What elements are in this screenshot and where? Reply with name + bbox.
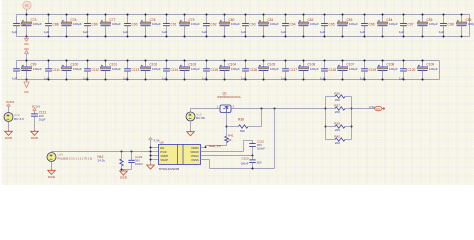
wire row2 right edge — [439, 61, 441, 80]
svg-text:1µF: 1µF — [399, 30, 405, 34]
wire row1 right edge — [469, 15, 471, 37]
svg-text:100µF: 100µF — [270, 67, 279, 71]
svg-text:1µF: 1µF — [123, 30, 129, 34]
svg-text:100µF: 100µF — [349, 67, 358, 71]
capacitor C108 100uF — [382, 61, 384, 67]
power port DC3V3 above row1 — [26, 9, 28, 15]
capacitor C91 1uF — [166, 15, 168, 24]
wire gate_pc — [226, 142, 228, 145]
resistor R36 200 — [326, 96, 336, 98]
capacitor C82 100uF — [303, 15, 305, 23]
ground below U14 — [51, 169, 53, 171]
wire bank left rail — [325, 97, 327, 140]
wire U14 to ground — [51, 162, 53, 169]
svg-text:C110: C110 — [242, 156, 249, 160]
capacitor C94 1uF — [285, 15, 287, 24]
capacitor C110 (row2 left edge) — [16, 61, 18, 69]
svg-text:C93: C93 — [250, 23, 256, 27]
capacitor C100 100uF — [66, 61, 68, 67]
svg-text:100µF: 100µF — [429, 67, 438, 71]
wire row1 bottom bus — [17, 36, 470, 38]
svg-text:50: 50 — [228, 138, 232, 142]
wire row2 top bus — [17, 60, 440, 62]
svg-text:DC3V3: DC3V3 — [32, 106, 41, 109]
resistor R41 50 — [225, 136, 228, 142]
power port over pin bus — [149, 138, 153, 140]
op-amp U8 TPS61402W2B — [159, 145, 201, 165]
svg-text:DC: DC — [25, 5, 29, 8]
svg-text:C117: C117 — [290, 68, 298, 72]
svg-text:C94: C94 — [290, 23, 296, 27]
svg-text:100µF: 100µF — [429, 22, 438, 26]
svg-text:DC3V3: DC3V3 — [6, 101, 15, 104]
capacitor C93 1uF — [245, 15, 247, 24]
svg-text:100µF: 100µF — [73, 22, 82, 26]
capacitor C121 10uF — [31, 113, 38, 115]
svg-text:100µF: 100µF — [270, 22, 279, 26]
capacitor C89 1uF — [87, 15, 89, 24]
wire bank right rail — [351, 97, 353, 140]
capacitor C80 100uF — [224, 15, 226, 23]
svg-text:C112: C112 — [92, 68, 100, 72]
capacitor C105 100uF — [263, 61, 265, 67]
svg-text:100µF: 100µF — [389, 67, 398, 71]
svg-text:DC 06: DC 06 — [196, 116, 205, 120]
svg-text:C115: C115 — [211, 68, 219, 72]
svg-text:100µF: 100µF — [191, 22, 200, 26]
ground below U12 — [8, 130, 10, 132]
svg-text:DC: DC — [24, 47, 29, 51]
svg-text:1µF: 1µF — [44, 30, 50, 34]
capacitor C73 100uF — [26, 15, 28, 23]
svg-text:100µF: 100µF — [389, 22, 398, 26]
svg-text:U8: U8 — [160, 141, 164, 145]
svg-text:C90: C90 — [132, 23, 138, 27]
svg-text:U14: U14 — [57, 153, 63, 157]
svg-text:50k: 50k — [240, 129, 245, 133]
ground below pin bus — [150, 164, 152, 166]
svg-text:C96: C96 — [369, 23, 375, 27]
capacitor C106 100uF — [303, 61, 305, 67]
schematic sheet background — [0, 0, 474, 185]
svg-text:100µF: 100µF — [310, 67, 319, 71]
capacitor C92 1uF — [206, 15, 208, 24]
capacitor C112 100nF — [252, 141, 254, 144]
wire U8 pin2 to C112 — [201, 151, 244, 153]
svg-text:PULSE(0 3.3 1 1 1 1 1 70 1.3): PULSE(0 3.3 1 1 1 1 1 70 1.3) — [57, 157, 92, 161]
svg-text:200: 200 — [335, 128, 340, 132]
svg-text:100nF: 100nF — [257, 146, 265, 150]
wire RC ground rail — [122, 169, 132, 171]
svg-text:1µF: 1µF — [241, 30, 247, 34]
capacitor C120 1uF — [403, 61, 405, 69]
voltage source U12 DC 3.3 — [4, 113, 13, 122]
capacitor C123 100nF — [131, 151, 133, 153]
svg-text:50V: 50V — [257, 161, 262, 165]
wire U13 to Q1 — [191, 108, 221, 110]
svg-text:DGND: DGND — [120, 177, 128, 180]
wire U13 up to gate wire — [190, 109, 192, 113]
svg-text:100µF: 100µF — [33, 67, 42, 71]
svg-text:200: 200 — [335, 110, 340, 114]
capacitor C77 100uF — [105, 15, 107, 23]
capacitor C115 1uF — [206, 61, 208, 69]
resistor R37 200 — [326, 108, 336, 110]
svg-text:R39: R39 — [334, 121, 340, 125]
capacitor C99 100uF — [26, 61, 28, 67]
svg-text:DGND: DGND — [31, 137, 39, 140]
capacitor C86 100uF — [461, 15, 463, 23]
svg-text:C98: C98 — [448, 23, 454, 27]
capacitor C85 100uF — [422, 15, 424, 23]
capacitor C101 100uF — [105, 61, 107, 67]
svg-text:100µF: 100µF — [33, 22, 42, 26]
wire U12 to ground — [8, 122, 10, 130]
svg-text:1µF: 1µF — [320, 30, 326, 34]
resistor R40 200 — [326, 139, 336, 141]
capacitor C97 1uF — [403, 15, 405, 24]
capacitor C98 1uF — [443, 15, 445, 24]
wire U8 pin1 to gate — [201, 147, 206, 149]
wire return riser — [274, 109, 276, 169]
svg-text:R37: R37 — [334, 103, 340, 107]
capacitor C111 1uF — [48, 61, 50, 69]
capacitor C114 1uF — [166, 61, 168, 69]
capacitor C103 100uF — [184, 61, 186, 67]
svg-text:1µF: 1µF — [202, 30, 208, 34]
wire bank output — [352, 108, 375, 110]
capacitor C90 1uF — [127, 15, 129, 24]
svg-text:DGND: DGND — [48, 176, 56, 179]
wire U14 to gate line — [51, 152, 53, 153]
capacitor C118 1uF — [324, 61, 326, 69]
voltage source U13 DC 0.6 — [186, 112, 195, 121]
svg-text:C95: C95 — [329, 23, 335, 27]
svg-text:1µF: 1µF — [281, 30, 287, 34]
capacitor C112 1uF — [87, 61, 89, 69]
wire Q1 gate down — [226, 113, 228, 137]
capacitor C107 100uF — [342, 61, 344, 67]
ground below U13 — [190, 130, 192, 132]
svg-text:100µF: 100µF — [468, 22, 474, 26]
wire U8 pin3 junction — [201, 155, 253, 157]
svg-text:DC: DC — [24, 42, 29, 46]
capacitor C78 100uF — [145, 15, 147, 23]
capacitor C95 1uF — [324, 15, 326, 24]
svg-text:DC: DC — [376, 107, 380, 111]
capacitor C96 1uF — [364, 15, 366, 24]
resistor R39 200 — [326, 126, 336, 128]
capacitor C109 100uF — [422, 61, 424, 67]
svg-text:1µF: 1µF — [162, 30, 168, 34]
capacitor C110b 100nF — [252, 156, 254, 160]
ground below C121 — [34, 130, 36, 132]
svg-text:C88: C88 — [53, 23, 59, 27]
svg-text:100µF: 100µF — [112, 22, 121, 26]
capacitor C116 1uF — [245, 61, 247, 69]
capacitor C81 100uF — [263, 15, 265, 23]
svg-text:R40: R40 — [334, 134, 340, 138]
svg-text:DGND: DGND — [5, 137, 13, 140]
svg-text:VNAP: VNAP — [160, 158, 168, 162]
svg-text:R38: R38 — [238, 118, 244, 122]
svg-text:1µF: 1µF — [439, 30, 445, 34]
capacitor C87 (row1 left edge) — [16, 15, 18, 24]
svg-text:C114: C114 — [171, 68, 179, 72]
wire row2 bottom bus — [17, 79, 440, 81]
svg-text:C91: C91 — [171, 23, 177, 27]
wire pulse line — [52, 151, 151, 153]
wire row1 top bus — [17, 14, 470, 16]
svg-text:TPS61402W2B: TPS61402W2B — [159, 167, 180, 171]
svg-text:200: 200 — [335, 98, 340, 102]
svg-text:C89: C89 — [92, 23, 98, 27]
wire U8 pin4 return — [201, 159, 210, 161]
capacitor C104 100uF — [224, 61, 226, 67]
capacitor C102 100uF — [145, 61, 147, 67]
svg-text:100nF: 100nF — [241, 161, 249, 165]
svg-text:100µF: 100µF — [231, 22, 240, 26]
capacitor C84 100uF — [382, 15, 384, 23]
svg-text:C111: C111 — [53, 68, 61, 72]
svg-text:Gate_PC: Gate_PC — [209, 144, 222, 148]
capacitor C88 1uF — [48, 15, 50, 24]
capacitor C117 1uF — [285, 61, 287, 69]
svg-text:VNSS: VNSS — [191, 158, 199, 162]
svg-text:C113: C113 — [132, 68, 140, 72]
resistor R38 50k — [226, 126, 228, 128]
svg-text:10µF: 10µF — [39, 118, 46, 122]
port DC output — [375, 106, 382, 111]
svg-text:IPD036N04CFDA: IPD036N04CFDA — [217, 95, 241, 99]
svg-text:C120: C120 — [408, 68, 416, 72]
svg-text:100µF: 100µF — [73, 67, 82, 71]
ground port below row2 — [26, 80, 28, 83]
svg-text:100µF: 100µF — [349, 22, 358, 26]
wire U13 to ground — [190, 121, 192, 130]
svg-text:34.3k: 34.3k — [98, 159, 106, 163]
power port below row1 — [26, 37, 28, 39]
svg-text:1µF: 1µF — [360, 30, 366, 34]
svg-text:100µF: 100µF — [112, 67, 121, 71]
capacitor C83 100uF — [342, 15, 344, 23]
svg-text:C118: C118 — [329, 68, 337, 72]
svg-text:200: 200 — [335, 141, 340, 145]
svg-text:100µF: 100µF — [310, 22, 319, 26]
wire U8 left pin stubs — [151, 147, 159, 149]
resistor R42 34.3k — [121, 151, 123, 153]
svg-text:C97: C97 — [408, 23, 414, 27]
capacitor C79 100uF — [184, 15, 186, 23]
ground below R42 — [123, 170, 125, 172]
capacitor C113 1uF — [127, 61, 129, 69]
svg-text:R36: R36 — [334, 91, 340, 95]
svg-text:100µF: 100µF — [152, 67, 161, 71]
svg-text:1µF: 1µF — [12, 30, 18, 34]
svg-text:DC 3.3: DC 3.3 — [14, 117, 24, 121]
svg-text:1µF: 1µF — [83, 30, 89, 34]
svg-text:100µF: 100µF — [231, 67, 240, 71]
svg-text:100nF: 100nF — [135, 162, 143, 166]
capacitor C119 1uF — [364, 61, 366, 69]
capacitor C76 100uF — [66, 15, 68, 23]
svg-text:100µF: 100µF — [191, 67, 200, 71]
svg-text:R41: R41 — [228, 133, 234, 137]
wire Q1 drain to load — [231, 108, 326, 110]
svg-text:3.3A: 3.3A — [369, 105, 375, 109]
svg-text:100µF: 100µF — [152, 22, 161, 26]
voltage source U14 PULSE — [47, 153, 56, 162]
svg-text:C116: C116 — [250, 68, 258, 72]
svg-text:C119: C119 — [369, 68, 377, 72]
svg-text:1µF: 1µF — [12, 76, 18, 80]
svg-text:C92: C92 — [211, 23, 217, 27]
